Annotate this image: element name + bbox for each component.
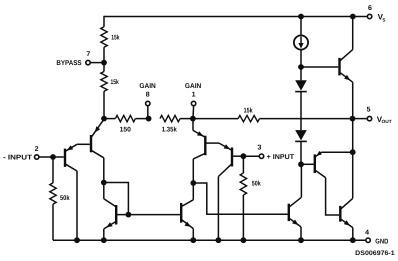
resistor R3 150 (115, 115, 135, 133)
junction ground rail 50k (241, 237, 247, 243)
wire node D to gain base (193, 183, 287, 214)
diode D2 (295, 130, 307, 141)
svg-text:GND: GND (375, 238, 388, 245)
junction pin 2 node (50, 154, 56, 160)
svg-text:4: 4 (365, 230, 369, 237)
svg-text:1: 1 (192, 91, 196, 98)
svg-text:50k: 50k (252, 181, 261, 188)
wire n1 to Q9 base (301, 66, 338, 68)
svg-text:3: 3 (257, 144, 261, 151)
terminal pin 4 GND (365, 230, 388, 246)
svg-text:50k: 50k (60, 195, 70, 202)
junction top rail at VS (350, 14, 356, 20)
junction Q8 emitter ground (350, 237, 356, 243)
wire Q8 collector to VOUT (352, 152, 354, 198)
wire D2 to node n2 (300, 141, 302, 164)
svg-text:15k: 15k (111, 35, 119, 42)
terminal pin 7 BYPASS (56, 51, 104, 67)
wire Q8 emitter to ground (352, 228, 354, 241)
svg-text:15k: 15k (244, 107, 253, 114)
current source I1 (294, 35, 308, 49)
wire current source to node n1 (300, 50, 302, 67)
wire Q2 collector down (103, 158, 105, 199)
wire node C to R5 (193, 118, 238, 120)
resistor R7 50k (240, 156, 261, 240)
junction ground rail mirror left (101, 237, 107, 243)
wire mirror collector column (192, 159, 194, 200)
wire R1 to bypass node (103, 47, 105, 62)
wire VOUT to Q7 emitter node (352, 119, 354, 153)
junction gain emitter ground (298, 237, 304, 243)
wire Q1 collector to ground rail (76, 171, 78, 240)
junction bypass node (101, 60, 107, 66)
wire VS rail to current source (300, 17, 302, 36)
junction top rail at current source (298, 14, 304, 20)
wire R3 to node B (135, 118, 148, 120)
wire Q4 base to Q3 emitter (205, 142, 219, 144)
wire Q9 collector to VS (352, 17, 354, 50)
wire n1 to diode D1 (300, 67, 302, 80)
wire gain collector to n2 (300, 164, 302, 197)
text drawing number (355, 250, 395, 257)
svg-text:OUT: OUT (382, 119, 392, 124)
junction VOUT node (350, 116, 356, 122)
wire bypass to R2 (103, 63, 105, 72)
transistor Q1 (53, 144, 77, 171)
transistor Q4 (193, 119, 205, 159)
wire left column top (103, 16, 105, 27)
svg-text:150: 150 (120, 126, 132, 133)
transistor Q10 gain stage (289, 197, 302, 227)
svg-text:- INPUT: - INPUT (3, 155, 33, 162)
junction mirror tie node (101, 180, 107, 186)
wire ground rail (53, 239, 366, 241)
resistor R4 1.35k (160, 115, 180, 133)
transistor Q3 (218, 143, 232, 176)
svg-text:1.35k: 1.35k (162, 126, 177, 133)
svg-text:BYPASS: BYPASS (56, 60, 81, 67)
svg-text:+ INPUT: + INPUT (267, 154, 295, 161)
terminal pin 1 GAIN (185, 83, 201, 118)
svg-text:2: 2 (35, 146, 39, 153)
wire Q3 collector to ground rail (217, 177, 219, 241)
junction mirror base line (125, 212, 131, 218)
wire top supply rail (104, 16, 354, 18)
svg-text:6: 6 (368, 5, 372, 12)
wire Q3 base to pin 3 (232, 155, 243, 157)
terminal pin 2 -INPUT (3, 146, 53, 162)
resistor R6 50k (50, 157, 70, 240)
svg-text:5: 5 (367, 107, 371, 114)
wire R4 to node C (180, 118, 193, 120)
resistor R5 15k (238, 107, 259, 122)
svg-text:S: S (382, 18, 385, 23)
diode D1 (295, 80, 307, 91)
transistor Q5 mirror left (104, 199, 116, 240)
wire Q1 emitter to Q2 base (77, 143, 90, 145)
svg-text:7: 7 (86, 51, 90, 58)
node A junction (101, 116, 107, 122)
svg-text:DS006976-1: DS006976-1 (355, 250, 395, 257)
node B junction (146, 116, 152, 122)
wire R2 to node A (103, 91, 105, 118)
wire R5 to VOUT node (260, 118, 353, 120)
junction ground rail Q3 (216, 237, 222, 243)
transistor Q7 (315, 151, 353, 178)
svg-text:15k: 15k (111, 79, 119, 86)
wire Q7 collector to Q8 base (326, 178, 340, 215)
terminal pin 3 +INPUT (243, 144, 294, 161)
node D junction (190, 180, 196, 186)
svg-text:GAIN: GAIN (139, 83, 155, 90)
transistor Q2 (91, 119, 104, 158)
wire n2 to Q7 base (301, 163, 314, 165)
wire node A to R3 (104, 118, 115, 120)
junction ground rail Q1 (74, 237, 80, 243)
wire Q9 emitter to VOUT (352, 82, 354, 118)
node C junction (190, 116, 196, 122)
junction Q7 emitter node (350, 149, 356, 155)
junction pin 3 node (241, 153, 247, 159)
transistor Q9 output top (340, 50, 353, 83)
transistor Q8 output bottom (340, 198, 353, 227)
wire gain emitter to ground (300, 227, 302, 240)
resistor R2 15k (101, 72, 119, 92)
svg-text:GAIN: GAIN (185, 83, 201, 90)
wire D1 to D2 (300, 92, 302, 131)
svg-text:8: 8 (146, 91, 150, 98)
terminal pin 6 VS (353, 5, 386, 22)
terminal pin 8 GAIN (139, 83, 155, 118)
junction ground rail mirror right (190, 237, 196, 243)
terminal pin 5 VOUT (353, 107, 392, 125)
wire mirror base tie (104, 183, 129, 215)
junction node n2 (298, 161, 304, 167)
transistor Q6 mirror right (181, 200, 193, 240)
resistor R1 15k (101, 27, 120, 47)
wire mirror base line (116, 214, 181, 216)
junction node n1 (298, 64, 304, 70)
